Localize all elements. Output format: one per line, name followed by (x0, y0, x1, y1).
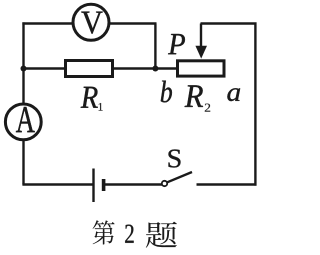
label S for switch (168, 150, 180, 168)
battery short plate (negative) (102, 179, 106, 191)
caption digit 2 (125, 225, 133, 243)
junction node dot left (21, 66, 27, 72)
wire top: node 1 to voltmeter to corner (22, 22, 156, 24)
label R1 subscript 1 (99, 103, 103, 111)
label P for wiper (168, 34, 185, 54)
battery long plate (positive) (92, 169, 94, 203)
label a terminal of rheostat (227, 88, 240, 101)
voltmeter V1 circle (73, 4, 109, 40)
wire: battery to switch pivot (104, 183, 164, 185)
rheostat wiper arrow head (195, 46, 207, 59)
label b terminal of rheostat (161, 81, 172, 103)
label R2 letter R (185, 85, 203, 106)
junction node dot between R1 and R2 (152, 66, 158, 72)
wire: switch to bottom right corner (197, 183, 257, 185)
resistor R1 box (66, 61, 113, 77)
wire: right side from slider stem over top right corner down to bottom (201, 24, 256, 186)
rheostat wiper arrow stem (200, 24, 202, 49)
ammeter letter A (16, 107, 35, 132)
switch S blade (166, 172, 192, 183)
ammeter A1 circle (5, 104, 41, 140)
wire: middle horizontal through R1 to R2 terminal b (24, 67, 178, 69)
wire: vertical drop from top wire to node B (154, 24, 156, 69)
caption character 题 (146, 222, 177, 248)
rheostat R2 box (178, 61, 225, 76)
label R1 letter R (81, 87, 98, 108)
voltmeter letter V (81, 12, 102, 34)
caption character 第 (93, 220, 115, 244)
switch pivot circle (162, 181, 167, 186)
label R2 subscript 2 (205, 104, 210, 112)
wire: left vertical through ammeter (22, 22, 24, 184)
wire: bottom left corner to battery (22, 183, 93, 185)
